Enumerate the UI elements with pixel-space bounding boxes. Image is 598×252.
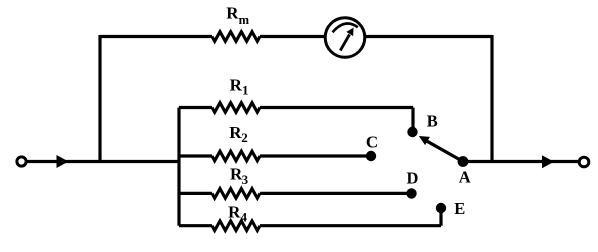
label A	[459, 167, 471, 186]
resistor R1	[212, 103, 260, 113]
input terminal	[17, 157, 26, 166]
switch lever from A toward B	[419, 136, 463, 162]
wire top-right vertical drop	[490, 35, 493, 162]
meter M1 galvanometer	[325, 18, 365, 58]
wire output line	[463, 160, 580, 163]
wire left vertical riser	[98, 35, 101, 162]
svg-text:C: C	[366, 132, 378, 151]
svg-text:4: 4	[241, 209, 248, 224]
label R3	[230, 165, 249, 187]
svg-text:m: m	[239, 13, 250, 27]
svg-text:2: 2	[241, 130, 248, 145]
node E contact dot	[436, 203, 446, 213]
node B contact dot	[407, 127, 417, 137]
label B	[427, 112, 438, 131]
svg-text:B: B	[427, 112, 438, 131]
label R2	[229, 123, 248, 145]
label C	[366, 132, 378, 151]
resistor Rm	[212, 32, 260, 42]
svg-text:A: A	[459, 167, 471, 186]
wire R2 branch	[179, 154, 369, 157]
label R4	[228, 202, 247, 224]
wire top branch horizontal	[100, 35, 492, 38]
svg-text:1: 1	[242, 83, 249, 98]
node C contact dot	[366, 151, 376, 161]
resistor R4	[212, 221, 260, 231]
resistor R3	[212, 189, 260, 199]
svg-text:3: 3	[242, 172, 249, 187]
svg-text:E: E	[454, 199, 465, 218]
wire R3 branch	[179, 192, 408, 195]
label E	[454, 199, 465, 218]
wire R1 branch	[179, 108, 413, 131]
input arrow	[57, 155, 69, 168]
svg-text:R: R	[226, 3, 239, 22]
label D	[406, 169, 418, 188]
node D contact dot	[406, 188, 416, 198]
svg-text:R: R	[230, 76, 243, 95]
wire R4 branch	[179, 210, 441, 226]
label R1	[230, 76, 249, 98]
label Rm	[226, 3, 249, 27]
wire main input line	[26, 160, 181, 163]
wire shunt bus vertical	[177, 108, 180, 226]
svg-text:R: R	[228, 202, 241, 221]
svg-text:D: D	[406, 169, 418, 188]
resistor R2	[212, 151, 260, 161]
output terminal	[579, 157, 589, 167]
node A pivot dot	[458, 156, 469, 167]
output arrow	[542, 155, 554, 168]
